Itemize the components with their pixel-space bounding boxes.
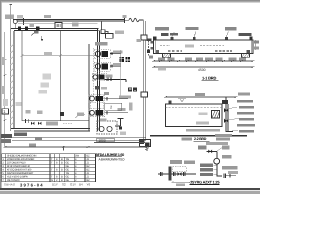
pipe tick bbox=[124, 18, 126, 24]
second text row above tank bbox=[161, 33, 169, 36]
section 2-2 label bbox=[182, 137, 193, 140]
leader text 2 bbox=[186, 27, 199, 30]
valve bowtie detail bbox=[178, 172, 182, 176]
leader cluster bbox=[75, 114, 85, 118]
flange pair bbox=[174, 172, 186, 176]
svg-text:G1Y: G1Y bbox=[70, 183, 76, 187]
tank left flange marks bbox=[150, 41, 153, 44]
tank right corner fitting bbox=[250, 37, 253, 40]
inner text blob bbox=[185, 45, 194, 48]
wall valve 3 bbox=[36, 27, 40, 31]
valve B bowtie bbox=[224, 119, 229, 124]
sleeve dashed box bbox=[173, 167, 187, 172]
sheet bottom edge line bbox=[0, 188, 260, 190]
valve V1 bowtie bbox=[31, 122, 34, 125]
corner fitting square bbox=[101, 30, 105, 34]
discharge header pipe bbox=[105, 79, 127, 82]
svg-text:A BHWRJWRHTSO: A BHWRJWRHTSO bbox=[99, 158, 125, 162]
expansion loop squiggle bbox=[129, 18, 139, 21]
tank inlet nozzle top-left bbox=[169, 101, 172, 104]
water meter circle bbox=[214, 158, 220, 164]
pump P2 group bbox=[94, 62, 110, 71]
floor drain cluster bbox=[95, 86, 100, 90]
pump unit label bbox=[95, 42, 108, 46]
pump P1 label bbox=[113, 51, 123, 54]
floor drain box bbox=[60, 112, 64, 116]
leader text 1 bbox=[155, 27, 169, 30]
exterior pipe 1 bbox=[12, 136, 146, 138]
internal dark dashes bbox=[168, 50, 232, 52]
sump pit dashed box bbox=[97, 121, 117, 134]
inlet text blob bbox=[5, 15, 14, 20]
pump P3 group bbox=[89, 95, 105, 103]
sheet left margin band bbox=[0, 0, 1, 190]
svg-text:S B H A O: S B H A O bbox=[4, 182, 16, 186]
dimension line 1 bbox=[152, 60, 254, 62]
tank shell bbox=[154, 40, 254, 54]
dimension line x5 bbox=[4, 32, 7, 147]
detail wall band bbox=[169, 167, 172, 181]
riser pipe bbox=[216, 152, 218, 176]
dim horizontal y55.5 bbox=[21, 54, 98, 57]
wall bottom foundation box bbox=[140, 140, 151, 147]
base label vertical bbox=[129, 103, 132, 111]
row 2 valve label bbox=[200, 168, 217, 171]
suction header dashed bbox=[93, 48, 95, 98]
reservoir tank rect bbox=[166, 104, 223, 127]
valve V2 bowtie bbox=[38, 122, 41, 125]
pump base rectangle bbox=[105, 103, 122, 110]
top wall bbox=[11, 29, 99, 31]
pump P1 group bbox=[94, 50, 110, 59]
pump P2b group (third row) bbox=[92, 74, 107, 81]
tank nozzle 1 bbox=[170, 37, 173, 40]
row 1 valve label bbox=[200, 164, 217, 167]
interior label blob 1 bbox=[43, 74, 52, 80]
drain leader symbol bbox=[31, 32, 36, 36]
exterior pipe 2 bbox=[12, 139, 146, 141]
ground line bbox=[150, 135, 247, 136]
tank inner text bbox=[196, 122, 209, 125]
sump drain circle 1 bbox=[99, 126, 104, 131]
pipe text blob bbox=[46, 122, 58, 126]
dim text mid bbox=[44, 52, 52, 55]
dim text 600 bbox=[44, 15, 51, 18]
label right of meter bbox=[115, 31, 124, 34]
saddle left bbox=[163, 53, 171, 57]
svg-text:D1Y: D1Y bbox=[52, 183, 58, 187]
drain pipe L bbox=[115, 118, 124, 126]
pump P2b label bbox=[106, 75, 113, 78]
pit dim text 1800 bbox=[97, 138, 115, 141]
pipe through wall bbox=[172, 173, 196, 175]
room label text bbox=[120, 57, 131, 62]
axis line left bbox=[9, 4, 12, 28]
outlet box top bbox=[222, 100, 228, 104]
water level symbol bbox=[178, 99, 186, 103]
detail texts above bbox=[170, 160, 182, 164]
P3 label bbox=[119, 95, 131, 98]
top supply pipe double line bbox=[13, 19, 129, 21]
wire squiggle to wall bbox=[139, 19, 143, 21]
bottom elbow and stub bbox=[217, 174, 236, 179]
tank nozzle 3 bbox=[225, 37, 228, 40]
sump label bbox=[100, 118, 107, 121]
table row texts bbox=[2, 155, 90, 182]
svg-text:1800: 1800 bbox=[99, 138, 106, 142]
detail dim below bbox=[172, 181, 192, 183]
saddle right bbox=[242, 53, 250, 57]
below ground note row bbox=[206, 142, 228, 145]
tank end marks bbox=[156, 50, 159, 53]
detail left: entry pipe arrow bbox=[158, 172, 169, 176]
svg-text:JSYRG AZXT 1:25: JSYRG AZXT 1:25 bbox=[190, 180, 219, 184]
wire to meter box bbox=[105, 32, 108, 34]
pipe support block hatched bbox=[212, 111, 220, 119]
svg-text:G: G bbox=[51, 179, 53, 182]
dim text top bbox=[195, 93, 205, 96]
pump P4 group bbox=[89, 109, 105, 117]
bottom wall bbox=[11, 128, 90, 131]
grid label left of section bbox=[128, 88, 132, 92]
building dim line bbox=[4, 146, 148, 151]
meter box bbox=[106, 34, 114, 39]
right col extra row below bbox=[215, 134, 232, 137]
svg-text:Y6: Y6 bbox=[87, 183, 91, 187]
small tick with dot bbox=[41, 36, 43, 40]
tank corner fitting bbox=[153, 36, 157, 39]
leaders to text column bbox=[229, 107, 239, 131]
dim line top bbox=[164, 96, 237, 98]
right end text row bbox=[239, 33, 252, 36]
secondary pipe bbox=[18, 23, 98, 25]
sump drain circle 2 bbox=[107, 126, 112, 131]
detail right: tap box text bbox=[198, 145, 207, 149]
pump P2 label bbox=[113, 63, 121, 66]
DN20 text bbox=[222, 155, 232, 159]
inner wall x89 bbox=[88, 44, 90, 131]
lower piping row label blobs bbox=[26, 110, 31, 114]
svg-text:GE: GE bbox=[66, 179, 70, 182]
left wall hatch bbox=[11, 44, 14, 125]
svg-text:BFDA LRJHSE 1:50: BFDA LRJHSE 1:50 bbox=[96, 153, 125, 157]
pump P4 discharge bbox=[105, 111, 129, 114]
svg-text:1-1 BRD: 1-1 BRD bbox=[202, 75, 216, 80]
below ground marks bbox=[216, 138, 230, 141]
valve label blob bbox=[30, 24, 35, 27]
interior corner text marks bbox=[3, 99, 8, 106]
interior label blob 2 bbox=[41, 83, 50, 88]
dimension line 2 bbox=[152, 66, 254, 68]
pipe tick x23.5 bbox=[23, 18, 25, 25]
wall valve 2 bbox=[25, 27, 28, 31]
dashed stub bbox=[63, 123, 73, 125]
svg-text:3976-04: 3976-04 bbox=[20, 182, 44, 187]
dim end cross bbox=[145, 148, 149, 151]
leader DN25 bbox=[222, 146, 230, 150]
leader lines bbox=[172, 32, 229, 38]
meter pit text bbox=[222, 166, 238, 170]
row 3 valve label bbox=[200, 173, 217, 176]
wall fitting box upper bbox=[141, 35, 147, 40]
tank left head bbox=[154, 40, 156, 54]
dim vertical x60.5 bbox=[60, 31, 62, 121]
pump P1 discharge pipe bbox=[110, 52, 121, 55]
equipment box on wall bbox=[55, 23, 62, 29]
discharge header vertical bbox=[120, 50, 122, 97]
tank inner small marks bbox=[199, 113, 208, 116]
exterior pipe labels bbox=[1, 134, 12, 138]
sheet top margin band bbox=[0, 0, 260, 1]
label near box bbox=[72, 22, 79, 26]
pump P3 discharge bbox=[105, 97, 129, 100]
dim text 2 near squiggle bbox=[123, 15, 127, 18]
inlet stub to wall bbox=[14, 24, 16, 29]
under tank text row bbox=[186, 129, 220, 132]
P4 label bbox=[118, 108, 126, 111]
suction pipe vertical bbox=[226, 97, 228, 131]
section marker left bbox=[2, 109, 9, 114]
elbow bottom bbox=[226, 128, 233, 132]
pit dim line bbox=[94, 141, 146, 145]
interior label blob 3 bbox=[39, 90, 48, 94]
top stub pipe bbox=[207, 151, 217, 153]
svg-text:2-2 BRD: 2-2 BRD bbox=[194, 137, 207, 141]
tank nozzle 2 bbox=[193, 37, 196, 40]
left wall bbox=[11, 28, 14, 131]
gauge marks right bbox=[254, 40, 256, 50]
exterior right wall bbox=[143, 20, 145, 140]
stub valve bbox=[208, 150, 212, 154]
svg-text:4500: 4500 bbox=[198, 68, 206, 72]
branch riser to meter bbox=[101, 21, 103, 30]
svg-text:B4: B4 bbox=[79, 183, 83, 187]
dim text above building dim line bbox=[29, 144, 36, 147]
wall fitting box lower bbox=[141, 92, 148, 97]
internal water line dashes bbox=[160, 45, 224, 47]
inlet valve circle bbox=[13, 20, 17, 24]
sheet bottom margin band bbox=[0, 190, 260, 191]
tank right head bbox=[250, 40, 252, 54]
inner wall right of room bbox=[98, 29, 100, 132]
interior bottom pipe bbox=[22, 120, 89, 122]
pump P2 discharge pipe bbox=[110, 64, 121, 67]
water level dashed bbox=[166, 106, 223, 108]
leader text 3 bbox=[225, 27, 237, 30]
overflow pipe at tank left bbox=[148, 41, 150, 56]
wall valve 1 bbox=[18, 27, 21, 31]
valve A bowtie bbox=[224, 108, 229, 113]
small mark under dim line2 left bbox=[158, 68, 166, 71]
svg-text:S2: S2 bbox=[62, 183, 66, 187]
left dim text blobs bbox=[2, 57, 5, 65]
pipe flange ticks bbox=[25, 119, 27, 123]
dim vertical x22 bbox=[21, 31, 23, 121]
right text column rows bbox=[238, 92, 250, 95]
dim texts above line bbox=[158, 58, 165, 61]
